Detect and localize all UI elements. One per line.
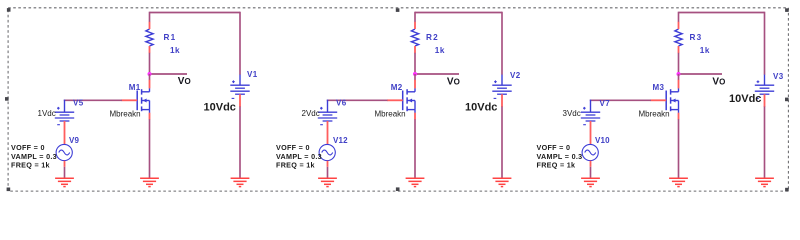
attributes of V12: VOFF/VAMPL/FREQ bbox=[276, 143, 322, 169]
svg-text:V5: V5 bbox=[73, 98, 84, 107]
svg-text:1Vdc: 1Vdc bbox=[38, 109, 56, 118]
wire bbox=[678, 12, 680, 23]
ground (under V9) bbox=[55, 178, 74, 186]
svg-text:10Vdc: 10Vdc bbox=[729, 93, 761, 105]
svg-text:FREQ = 1k: FREQ = 1k bbox=[11, 160, 50, 169]
value 10Vdc of V3 bbox=[729, 93, 761, 105]
svg-text:1k: 1k bbox=[700, 46, 710, 55]
label R1 bbox=[164, 33, 177, 42]
label V7 bbox=[600, 99, 611, 108]
svg-text:R2: R2 bbox=[426, 33, 439, 42]
svg-text:V6: V6 bbox=[336, 98, 347, 107]
dc source V6 battery symbol bbox=[318, 100, 337, 125]
svg-text:1k: 1k bbox=[435, 46, 445, 55]
ground (under M3 source) bbox=[669, 178, 688, 186]
value 10Vdc of V1 bbox=[204, 102, 236, 114]
wire: Vo stub bbox=[415, 73, 459, 75]
wire bbox=[501, 107, 503, 178]
ground (under M1 source) bbox=[140, 178, 159, 186]
wire bbox=[327, 121, 329, 145]
svg-text:3Vdc: 3Vdc bbox=[563, 109, 581, 118]
svg-text:2Vdc: 2Vdc bbox=[302, 109, 320, 118]
label V9 bbox=[69, 136, 80, 145]
svg-text:R1: R1 bbox=[164, 33, 177, 42]
svg-text:M2: M2 bbox=[391, 83, 403, 92]
wire: R2 top to V2 top bbox=[415, 12, 502, 14]
resistor R3 1k bbox=[675, 22, 682, 53]
ground (under M2 source) bbox=[406, 178, 425, 186]
value Mbreakn of M1 bbox=[110, 109, 141, 118]
label V10 bbox=[595, 136, 610, 145]
wire bbox=[239, 12, 241, 75]
wire: V6 to M2 gate bbox=[327, 99, 388, 101]
node Vo junction bbox=[148, 72, 152, 76]
value Mbreakn of M3 bbox=[639, 109, 670, 118]
value 10Vdc of V2 bbox=[465, 101, 497, 113]
svg-text:FREQ = 1k: FREQ = 1k bbox=[276, 160, 315, 169]
wire bbox=[501, 12, 503, 75]
wire: R1 top to V1 top bbox=[150, 12, 241, 14]
label V6 bbox=[336, 98, 347, 107]
wire bbox=[414, 119, 416, 177]
label M2 bbox=[391, 83, 403, 92]
value 1k of R2 bbox=[435, 46, 445, 55]
wire: V7 to M3 gate bbox=[590, 99, 651, 101]
svg-text:M3: M3 bbox=[653, 83, 665, 92]
value 1k of R1 bbox=[170, 46, 180, 55]
svg-text:Mbreakn: Mbreakn bbox=[639, 109, 670, 118]
ground (under V12) bbox=[318, 178, 337, 186]
selection border (dashed page boundary) bbox=[5, 8, 789, 192]
svg-text:1k: 1k bbox=[170, 46, 180, 55]
wire bbox=[327, 161, 329, 178]
sine source V10 bbox=[582, 144, 598, 160]
svg-text:V3: V3 bbox=[773, 72, 784, 81]
wire bbox=[764, 107, 766, 178]
wire bbox=[678, 53, 680, 74]
label V5 bbox=[73, 98, 84, 107]
svg-text:V1: V1 bbox=[247, 70, 258, 79]
wire bbox=[414, 53, 416, 74]
dc source V5 battery symbol bbox=[55, 100, 74, 125]
wire: Vo stub bbox=[150, 73, 188, 75]
value 2Vdc of V6 bbox=[302, 109, 320, 118]
wire bbox=[239, 107, 241, 178]
svg-text:10Vdc: 10Vdc bbox=[204, 102, 236, 114]
wire bbox=[149, 12, 151, 23]
ground (under V2) bbox=[493, 178, 512, 186]
value 1Vdc of V5 bbox=[38, 109, 56, 118]
wire bbox=[64, 161, 66, 178]
label V12 bbox=[333, 136, 348, 145]
wire bbox=[764, 12, 766, 75]
svg-text:V2: V2 bbox=[510, 71, 521, 80]
wire bbox=[678, 74, 680, 80]
ground (under V10) bbox=[581, 178, 600, 186]
dc source V2 10Vdc battery symbol bbox=[492, 75, 511, 107]
net label Vo bbox=[447, 77, 460, 88]
attributes of V10: VOFF/VAMPL/FREQ bbox=[537, 143, 583, 169]
wire bbox=[590, 121, 592, 145]
dc source V1 10Vdc battery symbol bbox=[230, 75, 249, 107]
transistor M3 NMOS Mbreakn bbox=[651, 80, 679, 120]
node Vo junction bbox=[413, 72, 417, 76]
svg-text:VO: VO bbox=[447, 77, 460, 88]
dc source V7 battery symbol bbox=[581, 100, 600, 125]
wire bbox=[149, 119, 151, 177]
net label Vo bbox=[178, 76, 191, 87]
wire bbox=[590, 161, 592, 178]
label V3 bbox=[773, 72, 784, 81]
svg-text:R3: R3 bbox=[690, 33, 703, 42]
wire bbox=[414, 12, 416, 23]
ground (under V1) bbox=[231, 178, 250, 186]
label M1 bbox=[129, 83, 141, 92]
wire bbox=[149, 53, 151, 74]
dc source V3 10Vdc battery symbol bbox=[755, 75, 774, 107]
label V2 bbox=[510, 71, 521, 80]
label M3 bbox=[653, 83, 665, 92]
svg-text:VO: VO bbox=[178, 76, 191, 87]
attributes of V9: VOFF/VAMPL/FREQ bbox=[11, 143, 57, 169]
label V1 bbox=[247, 70, 258, 79]
label R2 bbox=[426, 33, 439, 42]
svg-text:V7: V7 bbox=[600, 99, 611, 108]
wire bbox=[414, 74, 416, 80]
svg-text:Mbreakn: Mbreakn bbox=[375, 109, 406, 118]
net label Vo bbox=[712, 76, 725, 87]
svg-text:FREQ = 1k: FREQ = 1k bbox=[537, 160, 576, 169]
label R3 bbox=[690, 33, 703, 42]
wire bbox=[64, 121, 66, 145]
svg-text:M1: M1 bbox=[129, 83, 141, 92]
wire bbox=[149, 74, 151, 80]
svg-text:V12: V12 bbox=[333, 136, 348, 145]
svg-text:VO: VO bbox=[712, 76, 725, 87]
transistor M2 NMOS Mbreakn bbox=[387, 80, 415, 120]
wire: V5 to M1 gate bbox=[64, 99, 122, 101]
wire: R3 top to V3 top bbox=[679, 12, 765, 14]
transistor M1 NMOS Mbreakn bbox=[122, 80, 150, 120]
wire: Vo stub bbox=[679, 73, 723, 75]
svg-text:Mbreakn: Mbreakn bbox=[110, 109, 141, 118]
sine source V9 bbox=[56, 144, 72, 160]
value 1k of R3 bbox=[700, 46, 710, 55]
svg-text:V9: V9 bbox=[69, 136, 80, 145]
value Mbreakn of M2 bbox=[375, 109, 406, 118]
wire bbox=[678, 119, 680, 177]
ground (under V3) bbox=[755, 178, 774, 186]
svg-text:V10: V10 bbox=[595, 136, 610, 145]
svg-text:10Vdc: 10Vdc bbox=[465, 101, 497, 113]
node Vo junction bbox=[677, 72, 681, 76]
resistor R2 1k bbox=[411, 22, 418, 53]
value 3Vdc of V7 bbox=[563, 109, 581, 118]
resistor R1 1k bbox=[146, 22, 153, 53]
sine source V12 bbox=[319, 144, 335, 160]
